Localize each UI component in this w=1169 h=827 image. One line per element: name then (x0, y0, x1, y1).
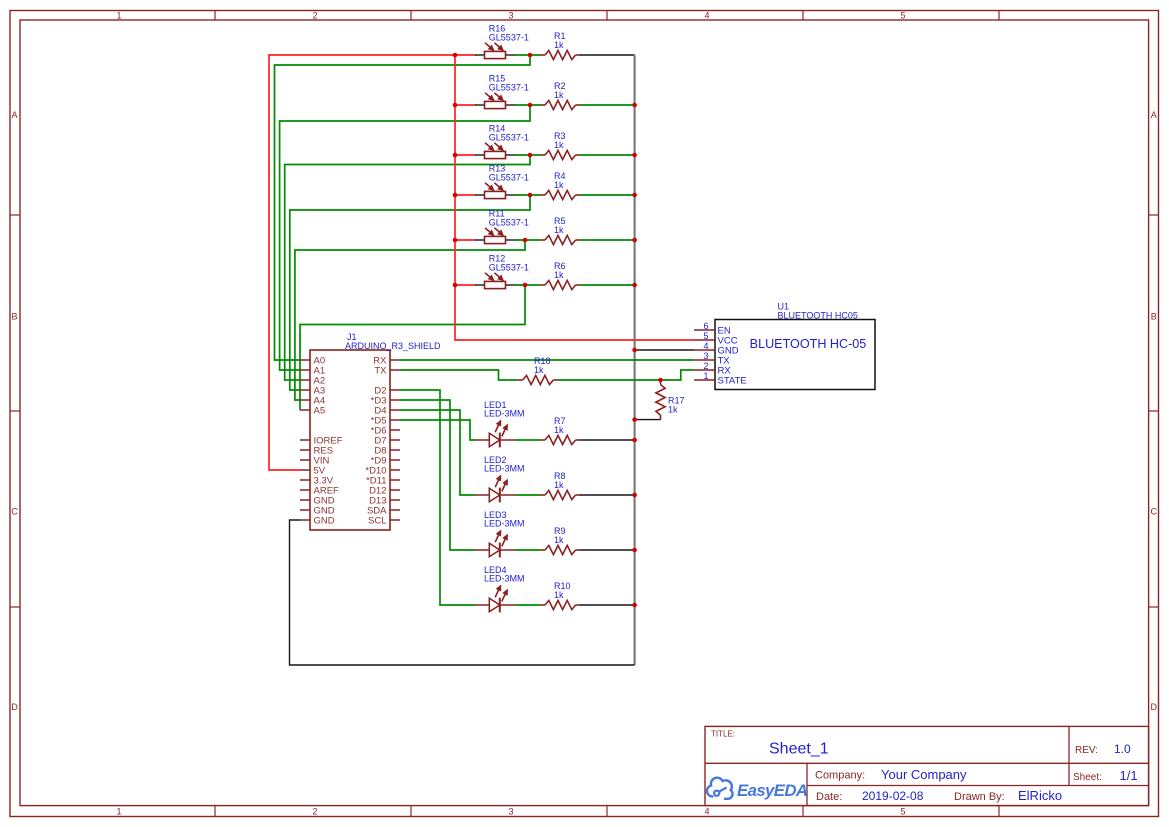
svg-text:Sheet_1: Sheet_1 (769, 740, 829, 757)
svg-text:STATE: STATE (718, 375, 747, 386)
wire R16 to junction (515, 54, 540, 56)
svg-text:1: 1 (703, 371, 708, 381)
photoresistor R15 GL5537-1 (475, 101, 516, 108)
wire R13 to junction (515, 194, 540, 196)
resistor R8 (540, 494, 581, 496)
resistor R5 (540, 239, 581, 241)
U1 pin names (718, 325, 747, 386)
LED LED4 LED-3MM (475, 598, 516, 613)
resistor R3 (540, 154, 581, 156)
wire arduino D-pin to LED1 (400, 420, 476, 440)
junction dot bus R7 (632, 438, 637, 443)
svg-text:GL5537-1: GL5537-1 (489, 172, 529, 182)
svg-text:SCL: SCL (368, 515, 386, 526)
junction dot bus row R5 (632, 238, 637, 243)
wire arduino D-pin to LED4 (400, 390, 476, 605)
svg-text:2: 2 (703, 361, 708, 371)
svg-text:4: 4 (704, 806, 709, 816)
wire R17 bottom to bus (635, 419, 661, 421)
junction dot R17 top node (658, 378, 663, 383)
LED LED2 LED-3MM (475, 488, 516, 503)
svg-text:1k: 1k (554, 480, 564, 490)
svg-text:LED-3MM: LED-3MM (484, 464, 525, 474)
junction dot red net y240 (453, 238, 458, 243)
junction dot node R12/R6 (523, 283, 528, 288)
svg-text:1k: 1k (554, 90, 564, 100)
wire R12 to junction (515, 284, 540, 286)
wire U1 GND to bus (635, 349, 694, 351)
wire R1 to vertical bus (580, 54, 635, 56)
junction dot bus R10 (632, 603, 637, 608)
junction dot red net y155 (453, 153, 458, 158)
wire LED2 to R8 (515, 494, 540, 496)
svg-text:GL5537-1: GL5537-1 (489, 132, 529, 142)
wire arduino D-pin to LED2 (400, 410, 476, 495)
svg-text:1k: 1k (554, 180, 564, 190)
frame column numbers bottom (116, 806, 905, 816)
resistor R2 (540, 104, 581, 106)
svg-text:ARDUINO_R3_SHIELD: ARDUINO_R3_SHIELD (345, 341, 441, 351)
svg-text:Date:: Date: (816, 791, 842, 803)
svg-text:3: 3 (508, 11, 513, 21)
svg-text:5: 5 (703, 331, 708, 341)
J1 left pin names (314, 355, 343, 526)
svg-text:EasyEDA: EasyEDA (737, 781, 807, 800)
junction dot bus row R3 (632, 153, 637, 158)
resistor R9 (540, 549, 581, 551)
junction dot bus GND (632, 348, 637, 353)
svg-text:4: 4 (703, 341, 708, 351)
svg-text:Your Company: Your Company (881, 767, 967, 782)
resistor R17 (660, 380, 662, 420)
junction dot node R14/R3 (528, 153, 533, 158)
resistor R1 (540, 54, 581, 56)
wire R5 to vertical bus (580, 239, 635, 241)
wire R12 junction to arduino pin (green) (300, 285, 525, 410)
wire arduino RX to U1 TX (400, 359, 694, 361)
LED LED1 LED-3MM (475, 433, 516, 448)
wire red bus to R11 left lead (455, 239, 476, 241)
svg-text:BLUETOOTH HC05: BLUETOOTH HC05 (778, 310, 858, 320)
svg-text:A: A (1151, 110, 1157, 120)
wire red bus to R15 left lead (455, 104, 476, 106)
svg-text:5: 5 (900, 806, 905, 816)
resistor R4 (540, 194, 581, 196)
svg-text:GND: GND (314, 515, 335, 526)
photoresistor R11 GL5537-1 (475, 236, 516, 243)
wire red 5V/VCC net (269, 55, 694, 470)
module U1 BLUETOOTH HC05 body (715, 320, 875, 390)
svg-text:TX: TX (374, 365, 387, 376)
wire LED1 to R7 (515, 439, 540, 441)
title block outline (705, 726, 1149, 805)
svg-text:B: B (11, 312, 17, 322)
photoresistor R14 GL5537-1 (475, 151, 516, 158)
junction dot node R16/R1 (528, 53, 533, 58)
wire R7 to bus (580, 439, 635, 441)
svg-text:A: A (11, 110, 17, 120)
svg-text:BLUETOOTH HC-05: BLUETOOTH HC-05 (750, 337, 867, 351)
wire LED4 to R10 (515, 604, 540, 606)
junction dot node R13/R4 (528, 193, 533, 198)
svg-text:6: 6 (703, 321, 708, 331)
svg-text:2: 2 (312, 11, 317, 21)
J1 right pin stubs (390, 360, 400, 520)
svg-text:D: D (11, 702, 18, 712)
J1 right pin names (365, 355, 387, 526)
wire red bus to R12 left lead (455, 284, 476, 286)
junction dot bus row R2 (632, 103, 637, 108)
wire R14 to junction (515, 154, 540, 156)
wire R2 to vertical bus (580, 104, 635, 106)
svg-text:Company:: Company: (815, 770, 865, 782)
wire R18 to U1 RX (558, 370, 694, 380)
svg-text:B: B (1151, 312, 1157, 322)
svg-text:1k: 1k (554, 270, 564, 280)
wire R10 to bus (580, 604, 635, 606)
resistor R7 (540, 439, 581, 441)
svg-text:D: D (1151, 702, 1158, 712)
wire R11 to junction (515, 239, 540, 241)
wire red bus to R13 left lead (455, 194, 476, 196)
wire vertical bus (right) (633, 55, 635, 665)
svg-text:GL5537-1: GL5537-1 (489, 217, 529, 227)
svg-text:TITLE:: TITLE: (711, 730, 735, 739)
svg-text:4: 4 (704, 11, 709, 21)
svg-text:1k: 1k (554, 225, 564, 235)
wire R3 to vertical bus (580, 154, 635, 156)
wire R16 junction to arduino pin (green) (275, 55, 531, 360)
U1 pin numbers (703, 321, 708, 381)
wire GND rail bottom (290, 520, 635, 665)
svg-text:LED-3MM: LED-3MM (484, 409, 525, 419)
junction dot red net y105 (453, 103, 458, 108)
junction dot red net y285 (453, 283, 458, 288)
wire red bus to R16 left lead (455, 54, 476, 56)
junction dot red net y55 (453, 53, 458, 58)
svg-text:Drawn By:: Drawn By: (954, 791, 1005, 803)
svg-text:1/1: 1/1 (1120, 768, 1138, 783)
svg-text:1: 1 (116, 806, 121, 816)
svg-text:2: 2 (312, 806, 317, 816)
junction dot bus R17 (632, 417, 637, 422)
wire R8 to bus (580, 494, 635, 496)
svg-text:1k: 1k (554, 40, 564, 50)
resistor R10 (540, 604, 581, 606)
svg-text:GL5537-1: GL5537-1 (489, 32, 529, 42)
wire R9 to bus (580, 549, 635, 551)
wire R15 to junction (515, 104, 540, 106)
wire red bus to R14 left lead (455, 154, 476, 156)
svg-text:ElRicko: ElRicko (1018, 788, 1062, 803)
junction dot red net y195 (453, 193, 458, 198)
frame row letters left (11, 110, 18, 712)
svg-text:1k: 1k (554, 425, 564, 435)
svg-text:1: 1 (116, 11, 121, 21)
svg-text:1k: 1k (554, 140, 564, 150)
frame row letters right (1151, 110, 1158, 712)
svg-text:Sheet:: Sheet: (1073, 772, 1102, 783)
resistor R18 (518, 379, 559, 381)
junction dot bus row R4 (632, 193, 637, 198)
wire R6 to vertical bus (580, 284, 635, 286)
svg-text:5: 5 (900, 11, 905, 21)
junction dot node R15/R2 (528, 103, 533, 108)
wire LED3 to R9 (515, 549, 540, 551)
wire arduino D-pin to LED3 (400, 400, 476, 550)
junction dot node R11/R5 (523, 238, 528, 243)
photoresistor R16 GL5537-1 (475, 51, 516, 58)
LED LED3 LED-3MM (475, 543, 516, 558)
svg-text:GL5537-1: GL5537-1 (489, 262, 529, 272)
junction dot bus R9 (632, 548, 637, 553)
junction dot bus row R6 (632, 283, 637, 288)
svg-text:A5: A5 (314, 405, 326, 416)
svg-text:1k: 1k (668, 405, 678, 415)
photoresistor R13 GL5537-1 (475, 191, 516, 198)
wire R4 to vertical bus (580, 194, 635, 196)
frame column numbers top (116, 11, 905, 21)
svg-text:C: C (1151, 507, 1158, 517)
connector J1 ARDUINO_R3_SHIELD body (310, 350, 390, 530)
svg-text:REV:: REV: (1075, 745, 1098, 756)
svg-text:GL5537-1: GL5537-1 (489, 82, 529, 92)
J1 left pin stubs (300, 360, 310, 520)
EasyEDA logo cloud icon (707, 778, 733, 799)
svg-text:2019-02-08: 2019-02-08 (862, 789, 924, 803)
svg-text:LED-3MM: LED-3MM (484, 574, 525, 584)
junction dot bus R8 (632, 493, 637, 498)
wire arduino TX to R18 (400, 370, 518, 380)
U1 pin stubs (694, 330, 715, 380)
wire R15 junction to arduino pin (green) (280, 105, 530, 370)
svg-text:3: 3 (508, 806, 513, 816)
svg-text:3: 3 (703, 351, 708, 361)
svg-text:C: C (11, 507, 18, 517)
wire R13 junction to arduino pin (green) (290, 195, 530, 390)
svg-text:LED-3MM: LED-3MM (484, 519, 525, 529)
svg-text:1.0: 1.0 (1114, 742, 1131, 756)
photoresistor R12 GL5537-1 (475, 281, 516, 288)
resistor R6 (540, 284, 581, 286)
wire R11 junction to arduino pin (green) (295, 240, 525, 400)
svg-text:1k: 1k (534, 365, 544, 375)
wire R14 junction to arduino pin (green) (285, 155, 530, 380)
svg-text:1k: 1k (554, 535, 564, 545)
svg-text:1k: 1k (554, 590, 564, 600)
